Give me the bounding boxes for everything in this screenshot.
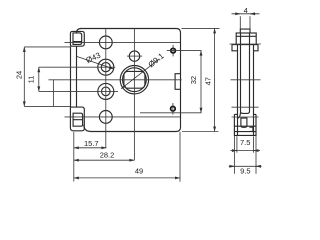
big bore rounded-square cavity [124,71,145,88]
side view tick row right-hole [232,106,259,108]
47 bottom extension [182,131,219,133]
side view body outer walls [238,44,254,135]
side view flange inner lines [234,126,256,131]
svg-text:32: 32 [189,76,198,84]
side view bottom flange [234,114,256,135]
hole A [99,36,112,49]
centerline row B / 11-top extension [39,66,115,68]
svg-text:Ø43: Ø43 [85,50,103,65]
dimension 28.2 line [74,159,135,161]
big bore inner circle [122,68,146,92]
bottom-right bold hole [171,106,176,111]
top-middle hole [129,51,139,61]
plate outline (front view) [77,29,181,132]
dimension 9.5 line [229,165,262,167]
side view inner slot walls with U bottom [241,33,250,113]
side view left wing [232,45,238,51]
bottom-left tab inner lines [73,113,83,126]
top-left tab outer [70,31,84,46]
right-edge slot [175,74,180,90]
leader line for Ø43 [77,57,114,70]
leader line for Ø9.1 [121,59,159,89]
dimension 32 line [200,51,202,113]
main vertical centreline [133,29,135,161]
side view flange top stubs [234,113,256,115]
top-left tab inner lines [73,33,82,45]
left column centreline vertical [105,29,107,148]
hook vertical joining centre row to 24-bottom extension [52,80,54,107]
hole C counterbore [98,83,114,99]
svg-text:11: 11 [26,76,35,84]
side view tick row D [232,116,259,118]
hole B bore [101,63,110,72]
dimension 49 line [74,177,180,179]
hole D [99,111,112,124]
svg-text:7.5: 7.5 [240,138,250,147]
hole C bore [102,87,111,96]
top-right hole vertical tick [172,45,174,57]
4-dim extension lines [240,16,250,28]
big bore outer circle [120,66,148,94]
dimension 4 line [232,13,260,15]
centerline row center [49,79,182,81]
svg-text:15.7: 15.7 [84,139,99,148]
svg-text:49: 49 [135,167,143,176]
centerline row C / 11-bottom extension [39,90,118,92]
dimension 7.5 line [231,150,261,152]
side view left wall flare curve [238,113,241,119]
bottom-right extension vertical [179,132,181,182]
svg-text:47: 47 [204,77,213,85]
centerline row A [65,41,181,43]
47 top extension [182,27,220,29]
hole B counterbore [98,59,114,75]
dimension 15.7 line [74,147,107,149]
side view right notch [250,127,253,131]
top-middle hole tick [127,55,142,57]
side view top tab [240,29,250,33]
dimension 47 line [214,28,216,131]
bottom-right hole vertical tick [172,103,174,115]
top-right bold hole [171,48,176,53]
9.5 extension lines [234,136,256,174]
bottom-left extension vertical [73,132,75,182]
dimension 4 arrows [235,13,241,15]
plate left edge segment between tabs [76,46,78,107]
svg-text:Ø9.1: Ø9.1 [147,51,167,69]
24-bottom extension line [24,105,70,107]
side view upper box inner line [236,35,256,37]
svg-text:24: 24 [14,71,23,79]
bottom-left tab outer [70,107,84,131]
dimension 11 line [38,67,40,91]
side view tick row center [231,79,261,81]
dimension 24 line [23,47,25,107]
side view tick row A [230,43,262,45]
svg-text:9.5: 9.5 [240,166,250,175]
side view upper box [236,33,256,45]
dimension 7.5 arrows [232,150,237,152]
side view slot2 [241,118,247,127]
32-bottom extension line [140,112,202,114]
rail edge between tabs [70,46,72,107]
dimension 9.5 arrows [230,165,235,167]
svg-text:28.2: 28.2 [100,151,115,160]
centerline row D [65,116,181,118]
side view right wing [254,45,259,51]
24-top extension line [24,46,70,48]
centerline row top-right hole [167,50,202,52]
7.5 extension lines [237,136,254,152]
